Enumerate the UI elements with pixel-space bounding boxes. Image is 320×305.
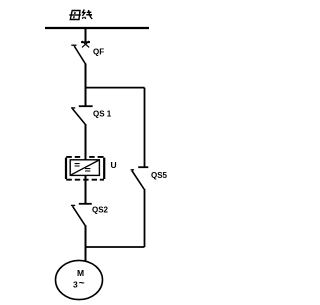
svg-text:QS2: QS2 [92,206,109,215]
svg-text:QS 1: QS 1 [93,110,112,119]
svg-text:M: M [77,268,84,278]
svg-text:U: U [111,160,117,170]
svg-text:QS5: QS5 [151,171,168,180]
svg-text:3: 3 [73,280,78,290]
svg-text:~: ~ [79,278,85,289]
svg-text:QF: QF [93,48,104,57]
